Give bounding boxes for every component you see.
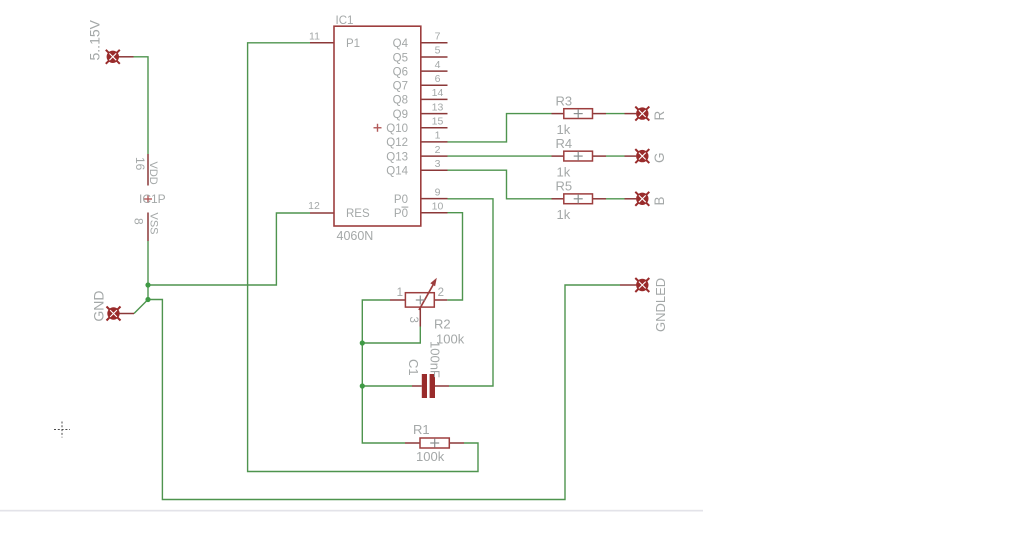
svg-text:B: B (652, 196, 667, 205)
svg-text:100nF: 100nF (428, 341, 443, 378)
svg-text:R: R (652, 111, 667, 121)
svg-text:IC1P: IC1P (139, 192, 166, 206)
svg-text:Q9: Q9 (393, 109, 408, 121)
svg-text:VDD: VDD (147, 162, 159, 185)
svg-text:13: 13 (432, 101, 444, 113)
svg-text:3: 3 (435, 158, 441, 170)
svg-text:C1: C1 (406, 359, 421, 376)
svg-text:15: 15 (432, 116, 444, 128)
svg-text:8: 8 (132, 218, 146, 225)
svg-text:1k: 1k (557, 122, 571, 137)
svg-text:Q10: Q10 (386, 123, 408, 135)
svg-text:Q4: Q4 (393, 38, 409, 50)
svg-text:2: 2 (438, 287, 444, 299)
svg-text:11: 11 (309, 31, 320, 43)
svg-text:1: 1 (435, 130, 441, 142)
svg-text:7: 7 (435, 31, 441, 43)
svg-text:VSS: VSS (148, 213, 160, 235)
svg-text:Q7: Q7 (393, 81, 408, 93)
svg-text:14: 14 (432, 87, 444, 99)
svg-text:4: 4 (435, 59, 441, 71)
svg-text:1k: 1k (557, 164, 571, 179)
svg-text:12: 12 (308, 200, 320, 212)
svg-text:G: G (652, 152, 667, 163)
svg-text:9: 9 (435, 186, 441, 198)
svg-text:R3: R3 (556, 93, 573, 108)
svg-text:4060N: 4060N (337, 229, 374, 243)
svg-text:GND: GND (90, 290, 106, 321)
svg-text:Q13: Q13 (386, 151, 408, 163)
svg-text:2: 2 (435, 144, 441, 156)
svg-text:10: 10 (432, 200, 444, 212)
svg-text:R1: R1 (413, 422, 430, 437)
svg-text:Q5: Q5 (393, 52, 408, 64)
svg-text:Q8: Q8 (393, 95, 408, 107)
svg-text:P0: P0 (394, 208, 408, 220)
svg-text:5..15V: 5..15V (87, 19, 103, 60)
svg-text:Q12: Q12 (386, 137, 408, 149)
svg-text:1k: 1k (557, 207, 571, 222)
svg-text:R2: R2 (434, 317, 451, 332)
svg-text:1: 1 (397, 287, 403, 299)
svg-text:16: 16 (133, 157, 147, 171)
svg-text:R5: R5 (556, 179, 573, 194)
svg-text:3: 3 (407, 317, 419, 323)
svg-text:100k: 100k (416, 449, 445, 464)
svg-text:5: 5 (435, 45, 441, 57)
svg-text:Q6: Q6 (393, 66, 408, 78)
svg-text:RES: RES (346, 208, 370, 220)
svg-text:IC1: IC1 (336, 15, 354, 27)
svg-text:6: 6 (435, 73, 441, 85)
svg-text:P1: P1 (346, 38, 360, 50)
svg-text:P0: P0 (394, 194, 408, 206)
svg-text:GNDLED: GNDLED (653, 278, 668, 332)
svg-text:Q14: Q14 (386, 166, 408, 178)
svg-text:R4: R4 (556, 136, 573, 151)
